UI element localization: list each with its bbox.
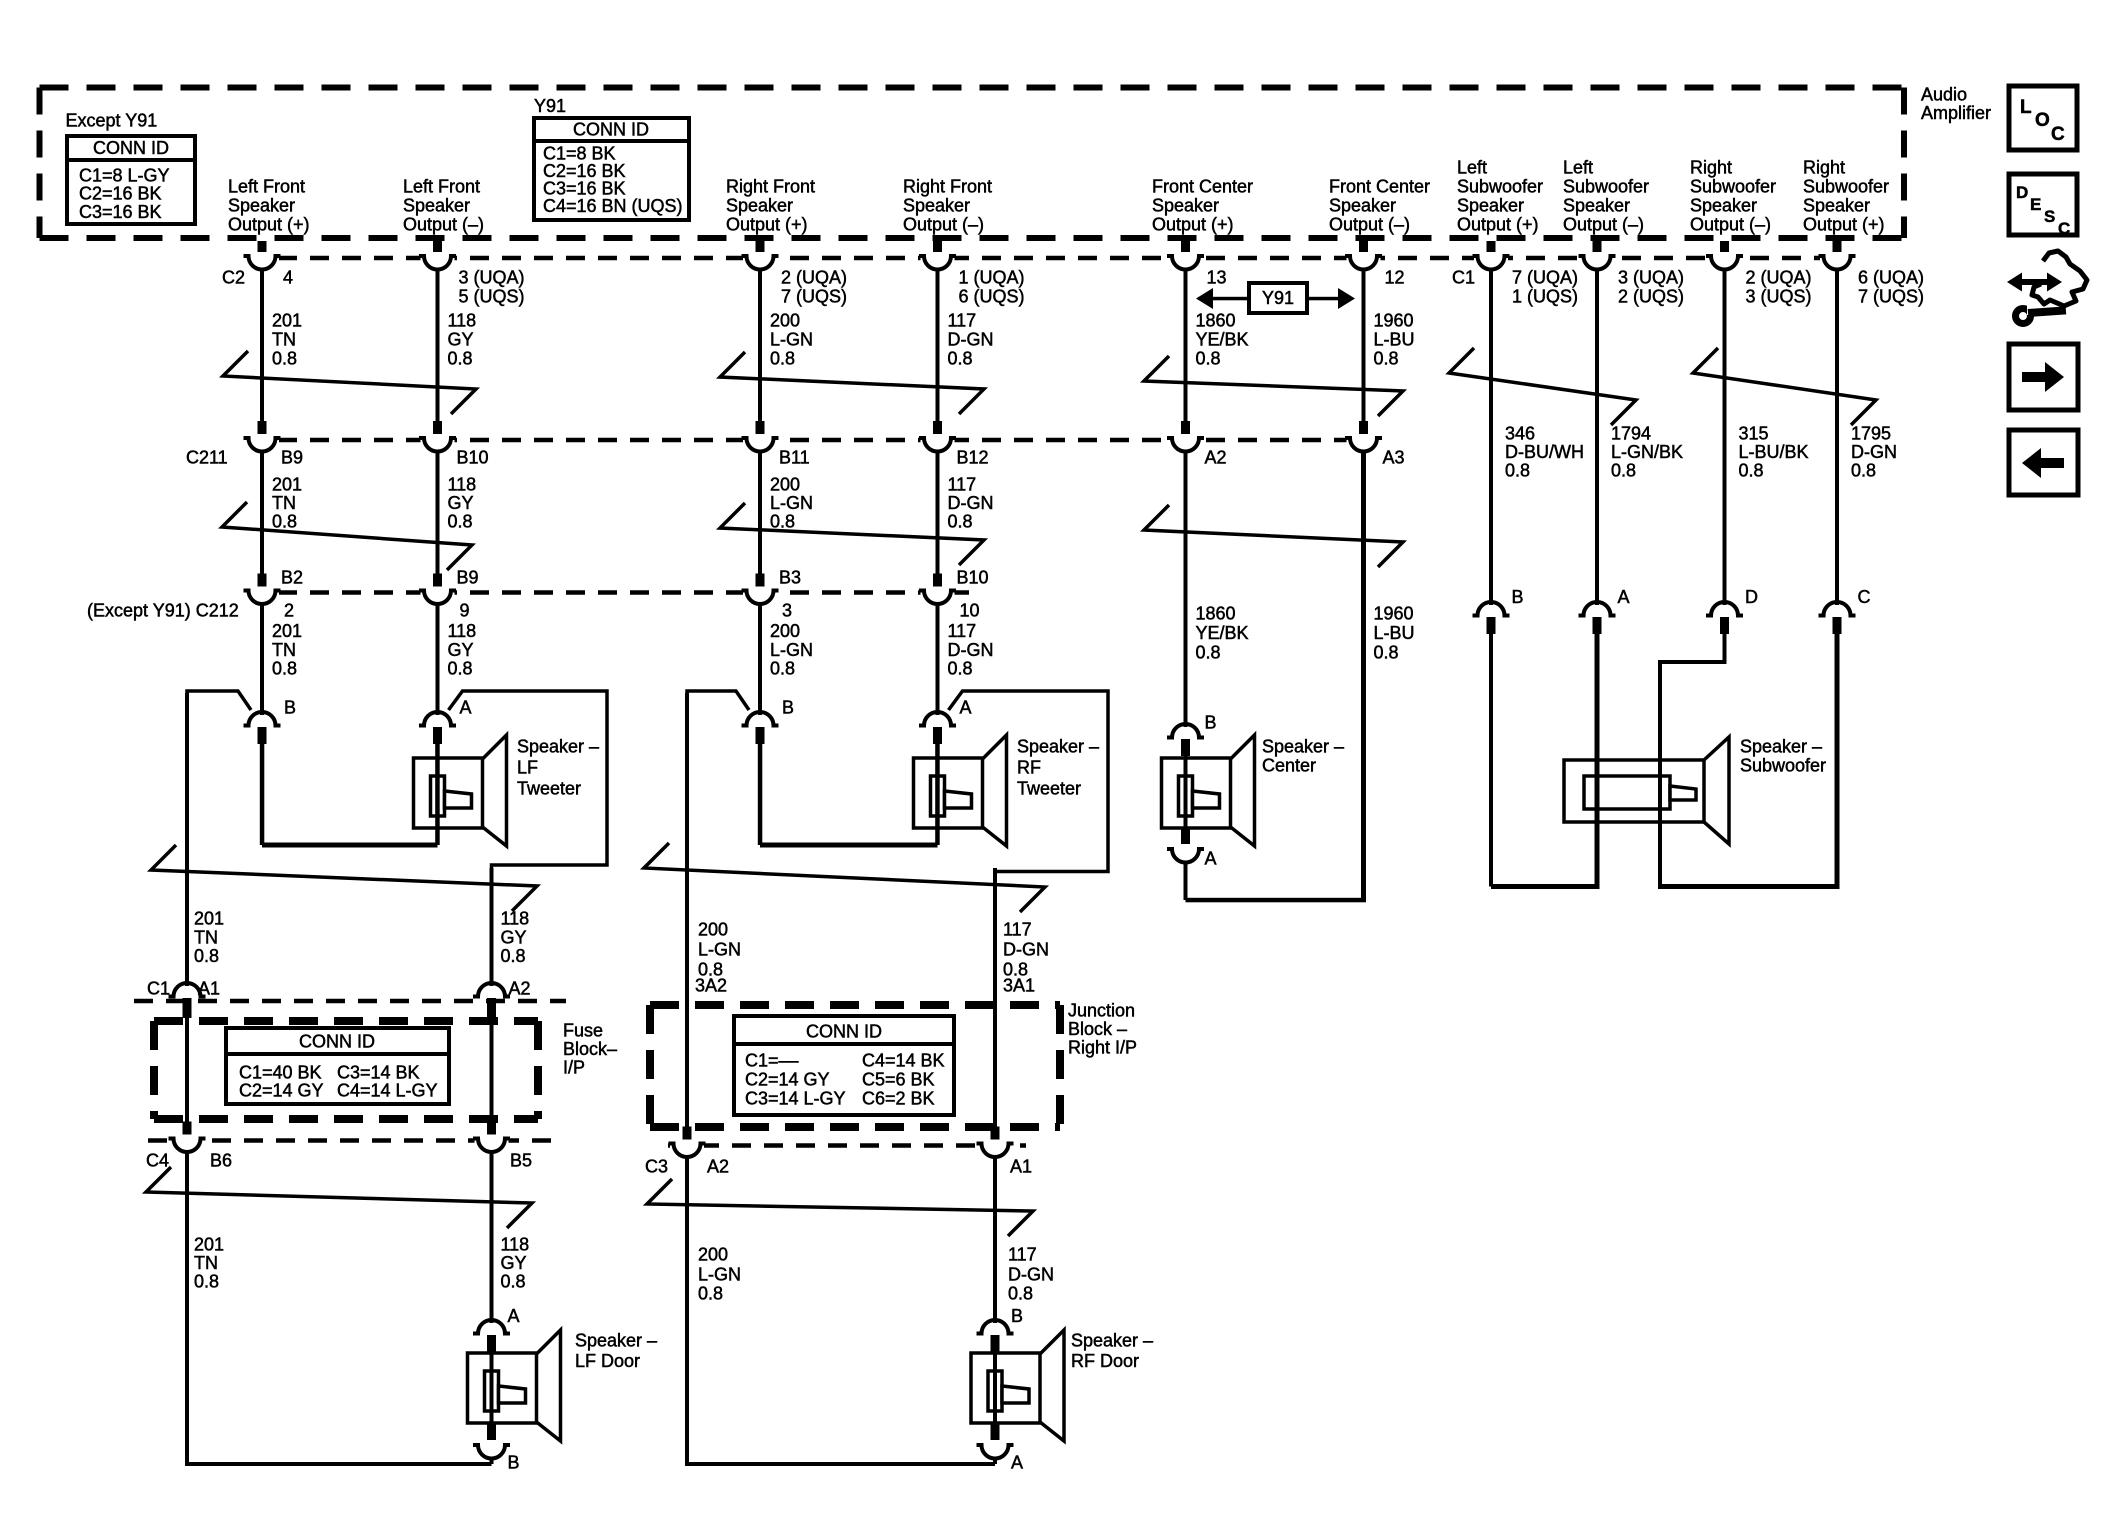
svg-text:D: D (1745, 587, 1758, 607)
wire right subwoofer D lead with jog to coil (1660, 633, 1725, 760)
svg-text:3 (UQS): 3 (UQS) (1746, 286, 1812, 306)
connector junction C3 terminal A1 (991, 1127, 1000, 1143)
svg-text:1 (UQS): 1 (UQS) (1512, 286, 1578, 306)
svg-text:0.8: 0.8 (1374, 642, 1399, 662)
svg-text:3 (UQA): 3 (UQA) (459, 267, 525, 287)
svg-text:2 (UQA): 2 (UQA) (1746, 267, 1812, 287)
svg-text:1960: 1960 (1374, 310, 1414, 330)
svg-text:Speaker –: Speaker – (1017, 736, 1099, 756)
svg-text:GY: GY (448, 329, 474, 349)
svg-text:13: 13 (1207, 267, 1227, 287)
svg-text:0.8: 0.8 (770, 511, 795, 531)
svg-text:C4: C4 (146, 1150, 169, 1170)
svg-text:1794: 1794 (1611, 423, 1651, 443)
svg-text:TN: TN (194, 1253, 218, 1273)
wire right subwoofer bottom return C to coil (1658, 884, 1840, 889)
svg-text:0.8: 0.8 (948, 511, 973, 531)
svg-text:0.8: 0.8 (448, 511, 473, 531)
svg-text:Speaker: Speaker (726, 196, 793, 216)
svg-text:TN: TN (272, 329, 296, 349)
wire RS+ 1795 D-GN from C2 row downward (1835, 269, 1839, 605)
svg-text:YE/BK: YE/BK (1196, 329, 1249, 349)
svg-text:Subwoofer: Subwoofer (1690, 177, 1776, 197)
svg-text:Speaker: Speaker (1803, 196, 1870, 216)
svg-text:Front Center: Front Center (1329, 177, 1430, 197)
svg-text:B11: B11 (779, 447, 810, 467)
svg-text:118: 118 (448, 621, 477, 641)
svg-text:LF: LF (517, 757, 538, 777)
svg-text:B9: B9 (281, 447, 303, 467)
connector junction C3 terminal A2 (683, 1127, 692, 1143)
wire LF+ 201 TN from C211 to C212 (260, 451, 264, 575)
svg-text:L-GN: L-GN (770, 329, 813, 349)
svg-text:Speaker: Speaker (1152, 196, 1219, 216)
svg-text:200: 200 (698, 1244, 728, 1264)
wire break symbol row1 left-front pair (223, 351, 476, 414)
svg-text:201: 201 (194, 908, 224, 928)
svg-text:B2: B2 (281, 567, 303, 587)
svg-text:B: B (1512, 587, 1524, 607)
speaker subwoofer icon (dual voice coil) (1564, 737, 1729, 844)
wire RF+ 200 L-GN from C2 row downward (758, 269, 762, 424)
svg-text:Block –: Block – (1068, 1019, 1127, 1039)
wire break symbol right-subwoofer pair (1693, 348, 1876, 425)
svg-text:118: 118 (448, 310, 477, 330)
wire LF+ 201 TN from C212 to tweeter (260, 604, 264, 716)
svg-text:A: A (460, 697, 472, 717)
svg-text:0.8: 0.8 (1851, 460, 1876, 480)
svg-text:L-GN: L-GN (770, 493, 813, 513)
svg-text:0.8: 0.8 (194, 1271, 219, 1291)
connector C211 terminal B11 (756, 421, 765, 437)
wire break symbol row3 left pair (151, 845, 537, 911)
svg-text:A3: A3 (1383, 447, 1405, 467)
svg-text:GY: GY (501, 1253, 527, 1273)
svg-text:0.8: 0.8 (698, 1283, 723, 1303)
wire 201 TN fuse output down to LF door return (187, 1152, 492, 1465)
svg-text:D: D (2016, 183, 2028, 202)
connector C2-row terminal column 8 (1593, 241, 1602, 256)
wire RF+ 200 L-GN from C212 to tweeter (758, 604, 762, 716)
wire 118 GY through fuse block (490, 1018, 494, 1122)
svg-text:200: 200 (770, 310, 800, 330)
svg-text:S: S (2044, 207, 2055, 226)
svg-text:B10: B10 (457, 447, 489, 467)
connector C212 terminal B3/3 (756, 574, 765, 590)
svg-text:C3=14 L-GY: C3=14 L-GY (745, 1088, 846, 1108)
svg-text:C4=14 BK: C4=14 BK (862, 1050, 945, 1070)
connector C211 terminal A3 (1359, 421, 1368, 437)
vehicle with wrench legend icon (2007, 251, 2087, 324)
svg-text:2 (UQA): 2 (UQA) (781, 267, 847, 287)
svg-text:A1: A1 (198, 978, 220, 998)
svg-text:Block–: Block– (563, 1039, 617, 1059)
svg-text:7 (UQS): 7 (UQS) (1858, 286, 1924, 306)
svg-text:B: B (508, 1452, 520, 1472)
svg-text:118: 118 (501, 908, 530, 928)
svg-text:Speaker –: Speaker – (1740, 736, 1822, 756)
svg-text:B10: B10 (957, 567, 989, 587)
svg-text:Output (+): Output (+) (1152, 215, 1234, 235)
connector RF tweeter terminal B (742, 712, 779, 726)
svg-text:O: O (2035, 110, 2050, 131)
svg-text:Speaker: Speaker (1690, 196, 1757, 216)
wire 200 L-GN junction output down to RF door return (687, 1157, 995, 1465)
svg-text:Output (–): Output (–) (1329, 215, 1410, 235)
wire right subwoofer C lead down (1835, 633, 1840, 887)
svg-text:Junction: Junction (1068, 1000, 1135, 1020)
CONN ID table (fuse block) (226, 1028, 449, 1104)
speaker RF Door icon (971, 1330, 1064, 1441)
svg-text:Speaker –: Speaker – (575, 1330, 657, 1350)
connector C2-row terminal column 7 (1487, 241, 1496, 256)
svg-text:CONN ID: CONN ID (806, 1021, 882, 1041)
svg-text:A: A (1011, 1452, 1023, 1472)
svg-text:C2=14 GY: C2=14 GY (239, 1080, 324, 1100)
svg-text:A: A (960, 697, 972, 717)
svg-text:LF Door: LF Door (575, 1351, 640, 1371)
wire LS+ 346 D-BU/WH from C2 row downward (1489, 269, 1493, 605)
svg-text:1960: 1960 (1374, 603, 1414, 623)
connector LF Door terminal A (473, 1320, 510, 1334)
wire center speaker B lead through voice coil (1184, 755, 1188, 832)
svg-text:Speaker –: Speaker – (517, 736, 599, 756)
svg-text:Speaker: Speaker (903, 196, 970, 216)
connector row C212 dashed line (246, 590, 972, 595)
svg-text:C5=6 BK: C5=6 BK (862, 1069, 935, 1089)
speaker LF Door icon (468, 1330, 561, 1441)
backward page arrow legend box (2009, 430, 2078, 495)
svg-text:C1: C1 (147, 978, 170, 998)
svg-text:3: 3 (782, 600, 792, 620)
svg-text:Audio: Audio (1921, 84, 1967, 104)
connector RF Door terminal A (991, 1424, 1000, 1440)
connector C2-row terminal column 10 (1833, 241, 1842, 256)
wire RF tweeter A lead through voice coil (935, 743, 940, 845)
wire RF+ 200 L-GN from C211 to C212 (758, 451, 762, 575)
svg-text:0.8: 0.8 (1739, 460, 1764, 480)
connector C2-row terminal column 2 (433, 241, 442, 256)
svg-text:118: 118 (448, 474, 477, 494)
svg-text:0.8: 0.8 (770, 348, 795, 368)
svg-text:TN: TN (272, 493, 296, 513)
svg-text:Speaker: Speaker (1329, 196, 1396, 216)
svg-text:C1: C1 (1452, 267, 1475, 287)
svg-text:Output (+): Output (+) (1803, 215, 1885, 235)
connector C211 terminal B9 (258, 421, 267, 437)
svg-text:Left Front: Left Front (403, 177, 480, 197)
wire 118 GY fuse output down to LF door A (490, 1152, 494, 1324)
svg-text:Left: Left (1457, 158, 1487, 178)
wire break symbol left-subwoofer pair (1449, 348, 1636, 425)
svg-text:0.8: 0.8 (272, 511, 297, 531)
svg-text:200: 200 (770, 474, 800, 494)
svg-text:0.8: 0.8 (501, 946, 526, 966)
svg-text:L-BU: L-BU (1374, 623, 1415, 643)
svg-text:C1=––: C1=–– (745, 1050, 799, 1070)
connector fuse block C4 terminal B6 (183, 1122, 192, 1138)
svg-text:C3=14 BK: C3=14 BK (337, 1062, 420, 1082)
svg-text:Speaker: Speaker (403, 196, 470, 216)
svg-text:Speaker –: Speaker – (1262, 736, 1344, 756)
svg-text:0.8: 0.8 (948, 348, 973, 368)
svg-text:1860: 1860 (1196, 603, 1236, 623)
wire RF Door lead through voice coil (993, 1351, 997, 1424)
svg-text:D-GN: D-GN (1008, 1264, 1054, 1284)
svg-text:2 (UQS): 2 (UQS) (1618, 286, 1684, 306)
wire LF- 118 GY from C212 to tweeter (436, 604, 440, 716)
wire LF Door bottom lead (490, 1458, 494, 1464)
svg-text:E: E (2030, 195, 2041, 214)
wire LF Door lead through voice coil (490, 1351, 494, 1424)
svg-text:D-GN: D-GN (948, 493, 994, 513)
svg-text:3A1: 3A1 (1003, 975, 1035, 995)
svg-text:Front Center: Front Center (1152, 177, 1253, 197)
connector C211 terminal B10 (433, 421, 442, 437)
svg-text:L-GN/BK: L-GN/BK (1611, 442, 1683, 462)
svg-text:GY: GY (448, 640, 474, 660)
svg-text:C1=8 L-GY: C1=8 L-GY (79, 165, 170, 185)
wire 117 D-GN through junction block (993, 1005, 997, 1127)
svg-text:0.8: 0.8 (448, 348, 473, 368)
svg-text:C: C (2058, 219, 2070, 238)
svg-text:B: B (1205, 712, 1217, 732)
connector C211 terminal A2 (1181, 421, 1190, 437)
svg-text:Amplifier: Amplifier (1921, 103, 1991, 123)
svg-text:200: 200 (770, 621, 800, 641)
svg-text:A: A (1205, 848, 1217, 868)
svg-text:D-BU/WH: D-BU/WH (1505, 442, 1584, 462)
svg-text:4: 4 (283, 267, 293, 287)
wire FC- 1960 from C211 down (thick) (1361, 451, 1366, 900)
svg-text:Fuse: Fuse (563, 1020, 603, 1040)
svg-text:12: 12 (1385, 267, 1405, 287)
svg-text:1795: 1795 (1851, 423, 1891, 443)
wire 117 D-GN junction output down to RF door B (993, 1157, 997, 1324)
connector LF Door terminal B (487, 1424, 496, 1440)
svg-text:C1=40 BK: C1=40 BK (239, 1062, 322, 1082)
svg-text:346: 346 (1505, 423, 1535, 443)
svg-text:B9: B9 (457, 567, 479, 587)
svg-text:117: 117 (1008, 1244, 1037, 1264)
wire break symbol row4 left pair (146, 1167, 532, 1228)
wire break symbol row2 right-front pair (720, 503, 984, 565)
svg-text:200: 200 (698, 919, 728, 939)
svg-text:6 (UQA): 6 (UQA) (1858, 267, 1924, 287)
svg-text:L-BU/BK: L-BU/BK (1739, 442, 1809, 462)
svg-text:C4=16 BN (UQS): C4=16 BN (UQS) (543, 196, 683, 216)
svg-text:Output (–): Output (–) (403, 215, 484, 235)
connector fuse block C1 terminal A2 (473, 983, 510, 997)
wire 118 GY branch down to fuse block C1 (490, 868, 494, 986)
wire break symbol row2 left-front pair (222, 502, 472, 570)
svg-text:117: 117 (948, 474, 977, 494)
svg-text:7 (UQS): 7 (UQS) (781, 286, 847, 306)
svg-text:Right: Right (1803, 158, 1845, 178)
svg-text:117: 117 (1003, 919, 1032, 939)
svg-text:A2: A2 (1205, 447, 1227, 467)
svg-text:B5: B5 (510, 1150, 532, 1170)
svg-text:Right Front: Right Front (903, 177, 992, 197)
svg-text:D-GN: D-GN (948, 329, 994, 349)
svg-text:L-GN: L-GN (698, 939, 741, 959)
wire LF- 118 GY from C2 row downward (436, 269, 440, 424)
svg-text:CONN ID: CONN ID (573, 119, 649, 139)
wire 117 D-GN branch down to junction block (993, 868, 997, 1005)
svg-text:10: 10 (960, 600, 980, 620)
speaker center icon (1162, 735, 1255, 846)
svg-text:1860: 1860 (1196, 310, 1236, 330)
connector C2-row terminal column 5 (1181, 241, 1190, 256)
fuse block dashed enclosure (154, 1021, 538, 1119)
svg-text:Except Y91: Except Y91 (66, 110, 158, 130)
svg-text:TN: TN (194, 927, 218, 947)
wire LS- 1794 L-GN/BK from C2 row downward (1595, 269, 1599, 605)
svg-text:Subwoofer: Subwoofer (1563, 177, 1649, 197)
wire 200 L-GN branch down to junction block (685, 693, 689, 1005)
svg-text:Speaker: Speaker (1563, 196, 1630, 216)
wire break symbol row4 right pair (647, 1179, 1033, 1236)
svg-text:A: A (508, 1306, 520, 1326)
svg-text:D-GN: D-GN (948, 640, 994, 660)
svg-text:0.8: 0.8 (770, 658, 795, 678)
svg-text:RF Door: RF Door (1071, 1351, 1139, 1371)
svg-text:Left: Left (1563, 158, 1593, 178)
svg-text:Center: Center (1262, 755, 1316, 775)
svg-text:A2: A2 (707, 1156, 729, 1176)
svg-text:0.8: 0.8 (1505, 460, 1530, 480)
connector LF tweeter terminal B (244, 712, 281, 726)
svg-text:B3: B3 (779, 567, 801, 587)
svg-text:D-GN: D-GN (1003, 939, 1049, 959)
wire FC+ 1860 from C211 to center speaker (1184, 451, 1188, 727)
svg-text:A1: A1 (1010, 1156, 1032, 1176)
svg-text:Right: Right (1690, 158, 1732, 178)
connector C211 terminal B12 (933, 421, 942, 437)
connector row C3 junction block dashed line (668, 1143, 1026, 1148)
svg-text:Tweeter: Tweeter (1017, 778, 1081, 798)
junction block dashed enclosure (650, 1005, 1060, 1127)
wire RS- 315 L-BU/BK from C2 row downward (1723, 269, 1727, 605)
svg-text:C6=2 BK: C6=2 BK (862, 1088, 935, 1108)
wire RF tweeter bridge bar (760, 843, 938, 848)
svg-text:201: 201 (272, 474, 302, 494)
svg-text:Speaker –: Speaker – (1071, 1330, 1153, 1350)
speaker LF tweeter icon (414, 735, 507, 846)
svg-text:Subwoofer: Subwoofer (1457, 177, 1543, 197)
connector C2-row terminal column 4 (933, 241, 942, 256)
svg-text:0.8: 0.8 (501, 1271, 526, 1291)
svg-text:L: L (2020, 97, 2032, 118)
svg-text:Left Front: Left Front (228, 177, 305, 197)
wire FC- 1960 L-BU from C2 row downward (1362, 269, 1366, 424)
svg-text:Output (+): Output (+) (726, 215, 808, 235)
svg-text:Output (–): Output (–) (1690, 215, 1771, 235)
svg-text:D-GN: D-GN (1851, 442, 1897, 462)
DESC legend box (2009, 174, 2077, 235)
speaker RF tweeter enclosure outline (687, 691, 749, 710)
svg-text:0.8: 0.8 (448, 658, 473, 678)
svg-text:C211: C211 (186, 447, 228, 467)
wire 201 TN through fuse block (185, 1018, 189, 1122)
svg-text:0.8: 0.8 (1196, 642, 1221, 662)
wire RF tweeter B lead down to bridge (758, 743, 763, 845)
speaker LF tweeter enclosure outline (187, 691, 251, 710)
svg-text:YE/BK: YE/BK (1196, 623, 1249, 643)
wire break symbol row2 front-center pair (1144, 505, 1403, 567)
svg-text:0.8: 0.8 (272, 348, 297, 368)
connector C2-row terminal column 3 (756, 241, 765, 256)
svg-text:TN: TN (272, 640, 296, 660)
wire RF Door bottom lead (993, 1458, 997, 1464)
svg-text:Y91: Y91 (1262, 288, 1294, 308)
svg-text:CONN ID: CONN ID (93, 138, 169, 158)
svg-text:Tweeter: Tweeter (517, 778, 581, 798)
svg-text:(Except Y91) C212: (Except Y91) C212 (87, 600, 239, 620)
svg-text:0.8: 0.8 (1611, 460, 1636, 480)
CONN ID table (Except Y91) (67, 136, 195, 224)
connector C212 terminal B10/10 (933, 574, 942, 590)
svg-text:2: 2 (284, 600, 294, 620)
svg-text:B6: B6 (210, 1150, 232, 1170)
connector row C4 fuse block dashed line (148, 1138, 556, 1143)
svg-text:0.8: 0.8 (1196, 348, 1221, 368)
svg-text:RF: RF (1017, 757, 1041, 777)
wire center speaker bottom return to FC- (1186, 898, 1367, 903)
svg-text:118: 118 (501, 1234, 530, 1254)
svg-text:B: B (284, 697, 296, 717)
svg-text:0.8: 0.8 (1008, 1283, 1033, 1303)
forward page arrow legend box (2009, 344, 2078, 410)
svg-text:117: 117 (948, 310, 977, 330)
svg-text:GY: GY (448, 493, 474, 513)
svg-text:117: 117 (948, 621, 977, 641)
svg-text:201: 201 (194, 1234, 224, 1254)
CONN ID table (Y91) (534, 118, 689, 220)
svg-text:I/P: I/P (563, 1057, 585, 1077)
wire break symbol row3 right pair (644, 843, 1045, 912)
svg-text:Subwoofer: Subwoofer (1740, 755, 1826, 775)
connector C2-row terminal column 6 (1359, 241, 1368, 256)
wire right subwoofer coil lead down (1658, 760, 1662, 887)
svg-text:9: 9 (460, 600, 470, 620)
connector C212 terminal B9/9 (433, 574, 442, 590)
svg-text:C2: C2 (222, 267, 245, 287)
svg-text:C2=16 BK: C2=16 BK (79, 183, 162, 203)
svg-text:CONN ID: CONN ID (299, 1031, 375, 1051)
svg-text:B12: B12 (957, 447, 989, 467)
svg-text:1 (UQA): 1 (UQA) (959, 267, 1025, 287)
svg-text:A2: A2 (509, 978, 531, 998)
wire LF tweeter bridge bar (262, 843, 438, 848)
wire LF tweeter B lead down to bridge (260, 743, 265, 845)
svg-text:C3=16 BK: C3=16 BK (79, 202, 162, 222)
wire break symbol row1 front-center pair (1144, 356, 1403, 416)
svg-text:Output (–): Output (–) (1563, 215, 1644, 235)
connector subwoofer terminal D (1706, 602, 1743, 616)
wire 201 TN left branch down to fuse block C1 (185, 693, 189, 986)
svg-text:C4=14 L-GY: C4=14 L-GY (337, 1080, 438, 1100)
svg-text:0.8: 0.8 (272, 658, 297, 678)
wire RF- 117 D-GN from C2 row downward (936, 269, 940, 424)
svg-text:GY: GY (501, 927, 527, 947)
connector subwoofer terminal B (1473, 602, 1510, 616)
svg-text:7 (UQA): 7 (UQA) (1512, 267, 1578, 287)
connector RF Door terminal B (977, 1320, 1014, 1334)
connector LF tweeter terminal A (419, 712, 456, 725)
svg-text:Right I/P: Right I/P (1068, 1037, 1137, 1057)
connector C212 terminal B2/2 (258, 574, 267, 590)
